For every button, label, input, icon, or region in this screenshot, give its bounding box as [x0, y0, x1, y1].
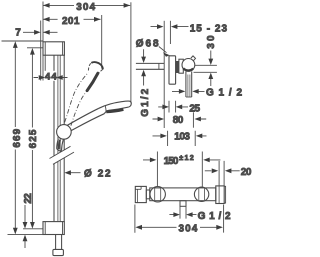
break symbol white band	[49, 146, 74, 164]
dashed hand shower outer edge	[65, 72, 89, 125]
svg-text:G1/2: G1/2	[140, 88, 151, 116]
ball bottom thick arc	[183, 68, 193, 70]
slider holder circle	[57, 125, 72, 140]
solid hand shower head	[99, 101, 131, 114]
thermostat body bar	[150, 188, 216, 201]
G1/2 thermostat dim	[169, 212, 196, 217]
wall extension line x=43	[42, 2, 44, 81]
svg-text:Ø68: Ø68	[136, 39, 159, 50]
bottom bracket	[43, 222, 64, 235]
svg-text:669: 669	[12, 128, 23, 147]
head-handle joint line	[104, 105, 107, 111]
bottom line y=234.6	[8, 234, 44, 236]
svg-text:22: 22	[23, 193, 34, 204]
44 extension line x=45.2	[44, 55, 46, 80]
80 extension line x=193.4	[192, 112, 194, 127]
wall line x=164.2	[163, 21, 165, 128]
bottom line y=228.8	[23, 228, 43, 230]
svg-text:G1/2: G1/2	[206, 87, 242, 98]
svg-text:103: 103	[174, 132, 190, 143]
dark nut after flange	[176, 61, 179, 73]
dim 25 arrows	[158, 105, 188, 110]
svg-text:G1/2: G1/2	[198, 211, 231, 222]
svg-text:4: 4	[51, 72, 57, 83]
svg-text:±12: ±12	[179, 153, 194, 162]
supply pipe	[136, 63, 164, 69]
hose stub below ball	[186, 72, 192, 98]
svg-text:30: 30	[206, 35, 217, 49]
dim 44: white backdrop	[44, 71, 56, 81]
dim 30 arrows	[208, 51, 213, 87]
extension line x=101.7 (dashed head front)	[101, 15, 103, 69]
dim 80 arrows	[153, 117, 207, 122]
svg-text:20: 20	[241, 167, 252, 178]
svg-text:7: 7	[15, 27, 21, 38]
union nut 1	[150, 187, 165, 202]
bar (4 vertical lines)	[54, 55, 64, 221]
solid hand shower handle	[67, 108, 105, 131]
ball tab top right	[191, 56, 196, 61]
svg-text:304: 304	[179, 224, 198, 235]
connector box	[179, 59, 183, 73]
dashed head cap left thin	[88, 63, 91, 71]
dim Ø22 arrow	[64, 170, 80, 175]
hose end piece below bracket	[53, 235, 64, 256]
top bracket	[43, 42, 64, 55]
dim 20	[205, 168, 240, 173]
30 extension lines	[194, 65, 217, 72]
Ø68 leader with arrow	[159, 47, 170, 57]
svg-text:201: 201	[62, 16, 80, 27]
svg-text:304: 304	[76, 2, 95, 13]
dim 669 vertical	[13, 41, 18, 234]
dim 22 vertical	[23, 205, 28, 248]
flange (escutcheon)	[169, 56, 176, 84]
dashed head right edge	[98, 69, 103, 73]
625 reference line y=47.8	[27, 47, 43, 49]
aux extension line x=40.7	[40, 21, 42, 81]
dim 304 bottom	[135, 225, 223, 230]
right handle	[216, 186, 226, 204]
dim 625 vertical	[30, 48, 35, 229]
svg-text:Ø 22: Ø 22	[84, 169, 111, 180]
dim 44: arrows	[34, 75, 68, 80]
supply pipe dim arrows (G1/2 left)	[141, 49, 146, 85]
solid head spray face (thick)	[106, 109, 123, 111]
G1/2 right arrows	[172, 89, 205, 94]
svg-text:15 - 23: 15 - 23	[190, 23, 228, 34]
flange back extension x=170.4	[169, 21, 171, 44]
dim 201: dimension line	[43, 17, 101, 22]
solid hand shower butt below holder	[57, 139, 64, 151]
svg-text:625: 625	[28, 129, 39, 148]
dim 15-23	[151, 24, 189, 29]
thermostat left handle	[135, 186, 146, 202]
top reference line y=41	[2, 40, 44, 42]
svg-text:4: 4	[45, 72, 51, 83]
union nut 2	[194, 187, 208, 201]
connector between handle and body	[146, 190, 150, 199]
dim 304 top: dimension line	[43, 3, 130, 8]
svg-text:25: 25	[189, 103, 200, 114]
break diagonal lines	[50, 146, 75, 164]
dashed head top cap (thick)	[91, 62, 103, 69]
dim 7: arrows	[23, 30, 58, 35]
dim 25 extension lines	[169, 101, 176, 113]
ball joint	[182, 59, 195, 72]
dim 103	[153, 134, 207, 139]
center outlet stub	[180, 201, 186, 207]
svg-text:150: 150	[164, 156, 179, 167]
dashed head spray face (thick dark)	[87, 73, 98, 90]
extension line x=130.9 (head front)	[130, 2, 132, 102]
dim 150±12	[143, 158, 220, 163]
svg-text:80: 80	[173, 115, 184, 126]
